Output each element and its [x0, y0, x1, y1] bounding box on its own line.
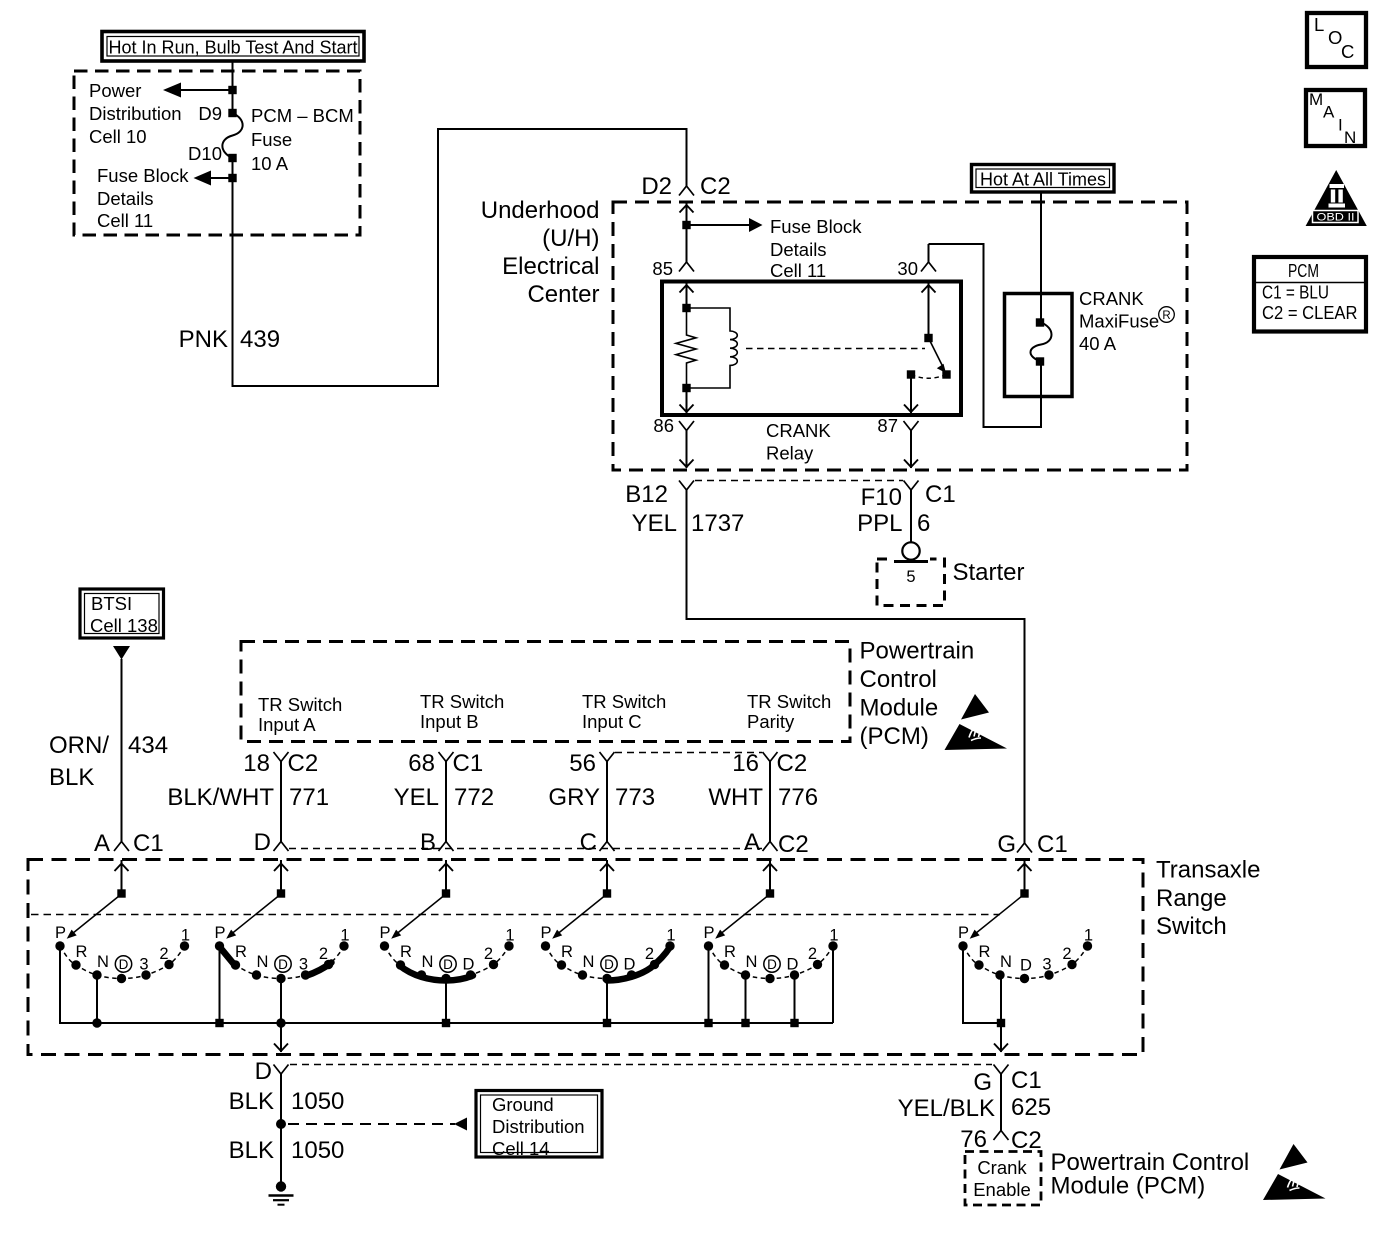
svg-text:1737: 1737 [691, 510, 744, 537]
switch D position labels [214, 924, 349, 974]
switch B position labels [379, 924, 514, 974]
OBD II symbol [1306, 170, 1367, 226]
ground distribution reference box [476, 1091, 602, 1160]
svg-text:MaxiFuse: MaxiFuse [1079, 311, 1159, 332]
svg-text:PPL: PPL [857, 510, 902, 537]
svg-text:CRANK: CRANK [1079, 288, 1144, 309]
svg-text:1: 1 [1084, 927, 1093, 945]
label: PCM-BCM Fuse 10 A [251, 105, 354, 174]
LOC symbol box [1307, 13, 1366, 67]
pin 85 connector [652, 258, 694, 279]
svg-text:2: 2 [808, 945, 817, 963]
svg-text:Starter: Starter [953, 559, 1025, 586]
node D9 [198, 103, 236, 124]
pin 30 connector [897, 244, 936, 279]
PCM connector legend box [1254, 257, 1366, 332]
svg-text:Fuse Block: Fuse Block [97, 165, 189, 186]
svg-text:Input A: Input A [258, 714, 316, 735]
wire label BLK 1050 (upper) [229, 1088, 345, 1115]
connector dashed line 56-16 [615, 752, 762, 754]
svg-text:Relay: Relay [766, 443, 814, 464]
relay pin30 lead [922, 284, 936, 343]
switch B contact line [442, 981, 450, 1028]
switch parity contact lines P N D 1 [704, 950, 833, 1027]
wire label BLK 1050 (lower) [229, 1137, 345, 1164]
switch Par position labels [703, 924, 838, 974]
svg-text:773: 773 [615, 784, 655, 811]
connector F10/C1 [861, 481, 956, 512]
svg-text:C2: C2 [700, 173, 731, 200]
ESD sensitivity symbol (PCM top) [945, 694, 1008, 750]
pin 87 connector [877, 415, 918, 468]
transaxle pin D connector [254, 829, 289, 856]
svg-text:BLK: BLK [229, 1137, 274, 1164]
svg-text:1: 1 [829, 927, 838, 945]
ground wire BLK 1050 [280, 1074, 282, 1184]
svg-text:Input B: Input B [420, 711, 479, 732]
svg-text:C2: C2 [1011, 1127, 1042, 1154]
label: TR Switch Parity [747, 691, 831, 732]
svg-text:ORN/: ORN/ [49, 732, 109, 759]
fuse element CRANK MaxiFuse [1031, 294, 1052, 397]
connector row dashed line C1 [695, 480, 903, 482]
label: Starter [953, 559, 1025, 586]
svg-text:85: 85 [652, 258, 673, 279]
svg-text:Parity: Parity [747, 711, 795, 732]
svg-text:N: N [1000, 953, 1012, 971]
svg-text:G: G [997, 831, 1016, 858]
connector D2/C2 [641, 173, 730, 200]
svg-text:R: R [979, 943, 991, 961]
splice node to ground distribution [276, 1118, 467, 1131]
wire PPL 6 to starter [910, 490, 912, 543]
svg-text:C1: C1 [133, 830, 164, 857]
CRANK MaxiFuse box [1005, 294, 1073, 397]
PCM pin 68 connector [408, 750, 483, 777]
svg-text:C2: C2 [777, 750, 808, 777]
switch C closed segment [607, 947, 670, 981]
svg-text:Crank: Crank [977, 1157, 1027, 1178]
svg-text:P: P [214, 924, 225, 942]
svg-text:771: 771 [289, 784, 329, 811]
switch D closed segments [221, 948, 332, 976]
svg-text:A: A [94, 830, 110, 857]
label: Underhood (U/H) Electrical Center [481, 197, 600, 308]
bus wire (switch common) [60, 950, 833, 1023]
svg-text:PCM – BCM: PCM – BCM [251, 105, 354, 126]
svg-text:87: 87 [877, 415, 898, 436]
switch B input wire and wiper [391, 860, 453, 939]
switch C position dots [541, 941, 675, 983]
wire into box at D2 [680, 202, 694, 262]
svg-text:R: R [1162, 310, 1170, 322]
wire WHT 776 [769, 762, 771, 842]
svg-text:625: 625 [1011, 1094, 1051, 1121]
label: Fuse Block Details Cell 11 [97, 165, 189, 231]
svg-text:3: 3 [1042, 956, 1051, 974]
relay actuation dashed link [746, 348, 925, 350]
switch Par input wire and wiper [715, 860, 777, 939]
svg-text:R: R [400, 943, 412, 961]
wire YEL 772 [445, 762, 447, 842]
svg-text:N: N [1344, 128, 1356, 147]
svg-text:5: 5 [906, 568, 915, 586]
svg-text:1: 1 [666, 927, 675, 945]
svg-text:C2 = CLEAR: C2 = CLEAR [1262, 302, 1358, 323]
svg-text:I: I [1338, 116, 1343, 135]
BTSI arrow terminal [113, 646, 130, 660]
wire label PPL 6 [857, 510, 930, 537]
svg-text:Module: Module [860, 695, 939, 722]
svg-text:Hot In Run, Bulb Test And Star: Hot In Run, Bulb Test And Start [109, 37, 358, 58]
svg-text:Electrical: Electrical [502, 253, 599, 280]
svg-text:Center: Center [527, 281, 599, 308]
switch A contact line from N [92, 975, 101, 1028]
svg-text:PCM: PCM [1288, 260, 1319, 281]
switch D position dots [215, 941, 349, 983]
header box: Hot In Run, Bulb Test And Start [102, 32, 364, 62]
svg-text:D: D [255, 1058, 272, 1085]
connector row dashed line bottom [290, 1064, 992, 1066]
svg-text:M: M [1309, 90, 1323, 109]
svg-text:L: L [1314, 14, 1324, 35]
wire: pin30 feed from CRANK MaxiFuse [929, 244, 1042, 427]
ground symbol G103 [269, 1181, 294, 1204]
svg-text:C2: C2 [288, 750, 319, 777]
svg-text:1050: 1050 [291, 1088, 344, 1115]
header box: Hot At All Times [972, 165, 1115, 193]
transaxle range switch dashed box [28, 860, 1143, 1055]
svg-text:F10: F10 [861, 484, 902, 511]
label: TR Switch Input A [258, 694, 342, 735]
ESD sensitivity symbol (PCM bottom) [1263, 1144, 1326, 1200]
switch B position dots [380, 941, 514, 983]
svg-text:2: 2 [1062, 945, 1071, 963]
switch G input wire and wiper [970, 860, 1032, 939]
svg-text:2: 2 [484, 945, 493, 963]
svg-text:N: N [257, 953, 269, 971]
svg-text:BLK: BLK [49, 764, 94, 791]
svg-text:D10: D10 [188, 143, 222, 164]
svg-text:Cell 11: Cell 11 [770, 260, 826, 281]
svg-text:D: D [119, 957, 129, 972]
transaxle pin C connector [580, 829, 615, 856]
svg-text:Range: Range [1156, 885, 1227, 912]
crank enable dashed box [965, 1152, 1041, 1206]
svg-text:D: D [278, 957, 288, 972]
connector B12 [625, 481, 694, 509]
underhood electrical center dashed box [613, 202, 1187, 470]
svg-text:YEL: YEL [632, 510, 677, 537]
svg-text:R: R [724, 943, 736, 961]
svg-text:Cell 138: Cell 138 [90, 615, 158, 636]
node: branch to Fuse Block Details [194, 171, 237, 186]
wire label YEL 772 [394, 784, 494, 811]
wire label BLK/WHT 771 [167, 784, 329, 811]
svg-text:2: 2 [645, 945, 654, 963]
svg-text:776: 776 [778, 784, 818, 811]
svg-text:B: B [420, 829, 436, 856]
svg-text:2: 2 [319, 945, 328, 963]
svg-text:Powertrain: Powertrain [860, 638, 975, 665]
connector A/C1 [94, 830, 164, 857]
switch B contact arc [385, 946, 510, 979]
svg-text:C1: C1 [453, 750, 484, 777]
node D10 [188, 143, 237, 164]
wire label YEL 1737 [632, 510, 745, 537]
svg-text:76: 76 [960, 1126, 987, 1153]
svg-text:R: R [561, 943, 573, 961]
svg-text:A: A [1323, 103, 1335, 122]
svg-text:Power: Power [89, 80, 141, 101]
PCM pin 16 connector [732, 750, 807, 777]
svg-text:3: 3 [139, 956, 148, 974]
switch D contact arc [220, 946, 345, 979]
BTSI reference box [80, 589, 164, 638]
svg-text:Control: Control [860, 666, 937, 693]
svg-text:BLK: BLK [229, 1088, 274, 1115]
svg-text:D: D [624, 956, 636, 974]
wire BLK/WHT 771 [280, 762, 282, 842]
svg-text:YEL/BLK: YEL/BLK [898, 1095, 995, 1122]
svg-text:772: 772 [454, 784, 494, 811]
svg-text:434: 434 [128, 732, 168, 759]
svg-text:D: D [463, 956, 475, 974]
svg-text:P: P [540, 924, 551, 942]
relay coil resistor [676, 308, 696, 388]
switch Par contact arc [709, 946, 834, 979]
svg-text:Cell 10: Cell 10 [89, 126, 147, 147]
svg-text:OBD II: OBD II [1317, 212, 1355, 224]
svg-text:C: C [1341, 41, 1354, 62]
svg-text:Ground: Ground [492, 1094, 554, 1115]
svg-text:D: D [443, 957, 453, 972]
svg-text:D: D [787, 956, 799, 974]
wire GRY 773 [606, 762, 608, 842]
svg-text:3: 3 [299, 956, 308, 974]
svg-text:C1: C1 [1037, 831, 1068, 858]
label: CRANK Relay [766, 420, 831, 464]
wire label PNK 439 [179, 326, 280, 353]
connector D (bottom) [255, 1058, 289, 1085]
svg-text:Input C: Input C [582, 711, 642, 732]
svg-text:D: D [254, 829, 271, 856]
switch C contact line [603, 981, 611, 1028]
svg-text:Underhood: Underhood [481, 197, 600, 224]
switch G position dots [958, 941, 1092, 983]
switch A position dots [55, 941, 189, 983]
svg-text:C1: C1 [925, 481, 956, 508]
svg-text:Distribution: Distribution [492, 1116, 585, 1137]
CRANK relay box [662, 282, 961, 416]
svg-text:1: 1 [181, 927, 190, 945]
svg-text:1050: 1050 [291, 1137, 344, 1164]
node: branch to Power Distribution [163, 83, 237, 98]
relay coil bottom node [680, 384, 694, 413]
svg-text:Hot At All Times: Hot At All Times [980, 169, 1106, 190]
svg-text:N: N [583, 953, 595, 971]
svg-text:Module (PCM): Module (PCM) [1051, 1173, 1206, 1200]
svg-text:A: A [744, 829, 760, 856]
svg-text:BLK/WHT: BLK/WHT [167, 784, 274, 811]
svg-text:16: 16 [732, 750, 759, 777]
switch C contact arc [546, 946, 671, 979]
svg-text:R: R [235, 943, 247, 961]
wire ORN/BLK 434 [121, 659, 123, 842]
svg-text:D: D [1020, 957, 1032, 975]
svg-text:2: 2 [159, 945, 168, 963]
svg-text:D: D [604, 957, 614, 972]
svg-text:CRANK: CRANK [766, 420, 831, 441]
label: Fuse Block Details Cell 11 (underhood) [770, 216, 862, 281]
PCM dashed box [241, 642, 850, 742]
svg-text:C: C [580, 829, 597, 856]
svg-text:N: N [97, 953, 109, 971]
label: TR Switch Input C [582, 691, 666, 732]
svg-text:1: 1 [340, 927, 349, 945]
switch G contact arc [963, 946, 1088, 979]
svg-text:1: 1 [505, 927, 514, 945]
switch D input wire and wiper [226, 860, 288, 939]
label: Power Distribution Cell 10 [89, 80, 182, 147]
svg-text:6: 6 [917, 510, 930, 537]
svg-text:Enable: Enable [973, 1179, 1031, 1200]
svg-text:Fuse Block: Fuse Block [770, 216, 862, 237]
svg-text:D2: D2 [641, 173, 672, 200]
label: Powertrain Control Module (PCM) (bottom) [1051, 1149, 1250, 1200]
switch B closed segment [400, 966, 474, 981]
svg-text:YEL: YEL [394, 784, 439, 811]
svg-text:10 A: 10 A [251, 153, 289, 174]
svg-text:(PCM): (PCM) [860, 723, 929, 750]
fuse F1 PCM-BCM 10A [222, 113, 242, 158]
connector G/C1 (transaxle top) [997, 831, 1067, 858]
switch A position labels [55, 924, 190, 974]
relay pin85 lead [680, 284, 694, 313]
switch common dashed line [31, 914, 1000, 916]
svg-text:Transaxle: Transaxle [1156, 857, 1260, 884]
svg-text:BTSI: BTSI [91, 593, 132, 614]
svg-text:TR Switch: TR Switch [747, 691, 831, 712]
svg-text:WHT: WHT [708, 784, 763, 811]
svg-text:Fuse: Fuse [251, 129, 292, 150]
wire from Hot At All Times to MaxiFuse [1040, 192, 1042, 294]
svg-text:439: 439 [240, 326, 280, 353]
wire label YEL/BLK 625 [898, 1094, 1051, 1122]
svg-text:TR Switch: TR Switch [420, 691, 504, 712]
switch Par position dots [704, 941, 838, 983]
wire label GRY 773 [548, 784, 655, 811]
wire label WHT 776 [708, 784, 818, 811]
svg-text:Cell 14: Cell 14 [492, 1138, 550, 1159]
svg-text:Details: Details [97, 188, 154, 209]
relay coil winding [687, 308, 738, 388]
wire: ignition feed down from header through fuse [233, 61, 687, 386]
svg-text:C1: C1 [1011, 1067, 1042, 1094]
svg-text:68: 68 [408, 750, 435, 777]
svg-text:B12: B12 [625, 481, 668, 508]
PCM pin 56 connector [569, 750, 614, 777]
switch A contact arc [60, 946, 185, 979]
svg-text:TR Switch: TR Switch [258, 694, 342, 715]
svg-text:N: N [746, 953, 758, 971]
svg-text:Switch: Switch [1156, 913, 1227, 940]
svg-text:Details: Details [770, 239, 827, 260]
svg-text:Cell 11: Cell 11 [97, 210, 153, 231]
svg-text:18: 18 [243, 750, 270, 777]
label: TR Switch Input B [420, 691, 504, 732]
switch C input wire and wiper [552, 860, 614, 939]
svg-text:P: P [379, 924, 390, 942]
transaxle pin A connector [744, 829, 809, 858]
svg-text:30: 30 [897, 258, 918, 279]
svg-text:GRY: GRY [548, 784, 600, 811]
svg-text:86: 86 [653, 415, 674, 436]
svg-text:PNK: PNK [179, 326, 228, 353]
relay switch arm [929, 338, 951, 379]
svg-text:P: P [55, 924, 66, 942]
wire YEL 1737 to transaxle G [687, 490, 1025, 843]
svg-text:P: P [703, 924, 714, 942]
svg-text:Distribution: Distribution [89, 103, 182, 124]
svg-text:56: 56 [569, 750, 596, 777]
svg-text:C1 = BLU: C1 = BLU [1262, 282, 1329, 303]
svg-text:40 A: 40 A [1079, 333, 1117, 354]
node: branch to fuse block details [682, 218, 762, 232]
transaxle pin B connector [420, 829, 454, 856]
svg-text:N: N [422, 953, 434, 971]
wire label ORN/BLK 434 [49, 732, 168, 791]
connector G/C1 (bottom) [973, 1065, 1041, 1097]
switch D output line [274, 979, 288, 1053]
svg-text:C2: C2 [778, 831, 809, 858]
label: Powertrain Control Module (PCM) [860, 638, 975, 751]
svg-text:P: P [958, 924, 969, 942]
svg-text:D: D [767, 957, 777, 972]
wire YEL/BLK 625 [1000, 1074, 1002, 1131]
starter dashed box [877, 542, 945, 605]
svg-text:D9: D9 [198, 103, 222, 124]
switch C position labels [540, 924, 675, 974]
svg-text:(U/H): (U/H) [542, 225, 599, 252]
label: Transaxle Range Switch [1156, 857, 1260, 941]
switch D contact line from P [215, 950, 223, 1027]
label: CRANK MaxiFuse (R) 40 A [1079, 288, 1174, 354]
fuse block dashed box (Power Distribution) [74, 71, 360, 235]
connector row dashed line D-A [289, 848, 762, 850]
relay pin87 lead [904, 370, 918, 413]
svg-text:TR Switch: TR Switch [582, 691, 666, 712]
relay contact dashed arc [911, 375, 947, 379]
switch G contact lines P N and output [963, 950, 1008, 1052]
pin 86 connector [653, 415, 694, 468]
PCM pin 18 connector [243, 750, 318, 777]
svg-text:R: R [76, 943, 88, 961]
switch G position labels [958, 924, 1093, 975]
MAIN symbol box [1306, 90, 1365, 147]
switch A input wire and wiper [67, 860, 129, 939]
svg-text:G: G [973, 1069, 992, 1096]
connector 76/C2 (PCM) [960, 1126, 1041, 1154]
